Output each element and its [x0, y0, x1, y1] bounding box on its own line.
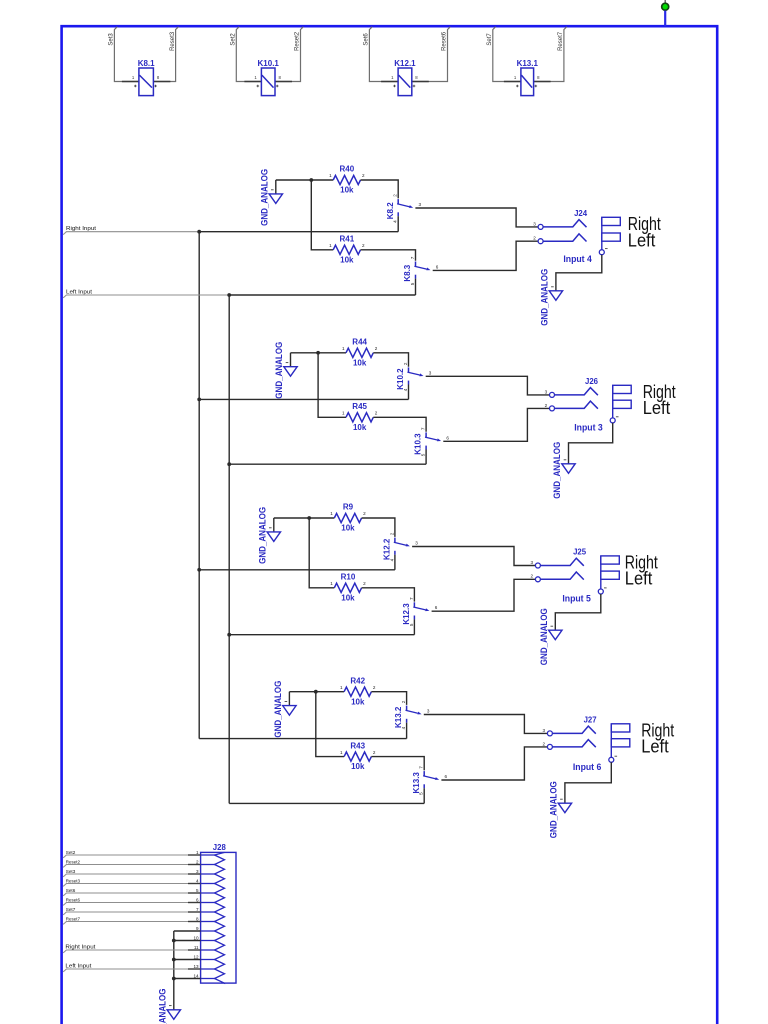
svg-text:Reset3: Reset3	[66, 878, 81, 883]
wire Set3 to K8.1 pin 1	[114, 27, 138, 82]
J27 sleeve pin 1	[609, 757, 614, 762]
wire K13.3 pin 6 to J27 pin 2	[441, 747, 547, 780]
svg-text:GND_ANALOG: GND_ANALOG	[539, 608, 550, 665]
svg-text:1: 1	[340, 685, 343, 690]
wire R43 pin 2 to K13.3 pin 7	[371, 757, 424, 771]
svg-text:1: 1	[329, 243, 332, 248]
svg-text:GND_ANALOG: GND_ANALOG	[157, 989, 168, 1024]
svg-text:1: 1	[340, 750, 343, 755]
svg-text:GND_ANALOG: GND_ANALOG	[552, 442, 563, 499]
junction right bus block 3	[197, 568, 201, 572]
wire Reset2 to J28 pin 2	[63, 865, 200, 868]
svg-text:1: 1	[330, 581, 333, 586]
svg-text:10k: 10k	[353, 423, 367, 432]
wire R42 pin 2 to K13.2 pin 2	[371, 692, 406, 705]
svg-text:J27: J27	[584, 716, 597, 725]
wire K8.3 pin 6 to J24 pin 2	[433, 241, 538, 270]
svg-text:2: 2	[401, 700, 406, 703]
J26 tip terminal (Right)	[613, 385, 632, 393]
wire J28 pin 10 stub	[174, 940, 201, 942]
wire J28 pin 9 to analog ground bus	[174, 930, 201, 932]
svg-text:2: 2	[373, 685, 376, 690]
svg-text:Set3: Set3	[109, 33, 115, 46]
ground GND_ANALOG left of R44	[284, 353, 297, 376]
svg-text:R43: R43	[350, 741, 365, 750]
ground GND_ANALOG left of R40	[269, 180, 282, 203]
wire ground to node block 4	[289, 691, 315, 693]
wire K12.2 pin 3 to J25 pin 3	[412, 547, 535, 566]
J28 pin 8 internal lead	[201, 921, 216, 923]
svg-text:1: 1	[342, 411, 345, 416]
wire R45 pin 2 to K10.3 pin 7	[373, 417, 426, 431]
wire node to R45 pin 1	[318, 353, 346, 418]
svg-text:2: 2	[373, 750, 376, 755]
K13.1 pin 8 polarity mark	[535, 85, 538, 88]
relay switch K13.3	[412, 766, 448, 795]
resistor R42	[340, 676, 376, 706]
svg-text:2: 2	[375, 411, 378, 416]
connector J28 contact springs	[215, 852, 225, 983]
J24 sleeve bus	[601, 217, 603, 249]
wire Set6 to K12.1 pin 1	[369, 27, 398, 82]
svg-text:Reset6: Reset6	[442, 31, 448, 51]
svg-text:K8.2: K8.2	[386, 202, 395, 219]
svg-text:J25: J25	[573, 548, 587, 557]
svg-text:13: 13	[193, 964, 199, 969]
svg-text:7: 7	[410, 256, 415, 259]
J28 pin 7 internal lead	[201, 911, 216, 913]
ground GND_ANALOG left of R9	[267, 518, 280, 541]
svg-text:Set3: Set3	[66, 869, 76, 874]
svg-text:Left: Left	[643, 398, 671, 418]
wire right bus to K10.2 pin 4	[199, 398, 408, 400]
wire R44 pin 2 to K10.2 pin 2	[373, 353, 408, 367]
svg-text:3: 3	[196, 869, 199, 874]
svg-text:R44: R44	[352, 338, 367, 347]
svg-text:Reset2: Reset2	[66, 859, 81, 864]
svg-text:6: 6	[446, 435, 449, 440]
svg-text:R9: R9	[343, 503, 354, 512]
wire ground to node block 1	[276, 179, 312, 181]
svg-text:2: 2	[545, 403, 548, 408]
wire right bus to K13.2 pin 4	[199, 738, 406, 740]
J24 tip terminal (Right)	[602, 217, 621, 225]
wire Left Input to J28 pin 13	[63, 969, 200, 972]
svg-text:Input 6: Input 6	[573, 762, 602, 772]
svg-text:K8.3: K8.3	[403, 264, 412, 281]
wire right bus to K12.2 pin 4	[199, 569, 395, 571]
svg-text:2: 2	[363, 581, 366, 586]
svg-text:11: 11	[194, 945, 199, 950]
svg-text:Reset7: Reset7	[66, 916, 81, 921]
wire Reset3 to J28 pin 4	[63, 884, 200, 887]
svg-text:GND_ANALOG: GND_ANALOG	[274, 342, 285, 399]
svg-text:Reset6: Reset6	[66, 897, 81, 902]
J25 ring contact pin 2	[531, 572, 584, 582]
wire Left Input to K8.3 pin 5	[229, 294, 415, 296]
J24 sleeve pin 1	[599, 250, 604, 255]
J27 tip terminal (Right)	[611, 724, 630, 732]
svg-text:GND_ANALOG: GND_ANALOG	[273, 681, 284, 738]
J28 pin 10 internal lead	[201, 940, 216, 942]
svg-text:14: 14	[193, 973, 199, 978]
svg-text:1: 1	[196, 850, 199, 855]
junction left bus block 2	[227, 462, 231, 466]
wire node to R40 pin 1	[311, 179, 333, 181]
wire J25 sleeve to ground	[555, 594, 601, 630]
svg-text:R42: R42	[350, 676, 365, 685]
relay coil K10.1	[258, 59, 280, 96]
J26 ring terminal (Left)	[613, 400, 632, 408]
svg-text:Set7: Set7	[487, 33, 493, 46]
svg-text:K12.3: K12.3	[402, 603, 411, 625]
svg-text:R45: R45	[352, 402, 367, 411]
svg-text:10k: 10k	[341, 524, 355, 533]
wire Set3 to J28 pin 3	[63, 874, 200, 877]
wire K8.2 pin 3 to J24 pin 3	[415, 208, 538, 227]
wire K12.3 pin 6 to J25 pin 2	[432, 579, 536, 611]
wire Set6 to J28 pin 5	[63, 893, 200, 896]
wire Left Input from border	[63, 295, 229, 298]
relay switch K8.3	[403, 256, 439, 285]
wire R40 pin 2 to K8.2 pin 2	[361, 180, 399, 198]
svg-text:10k: 10k	[351, 762, 365, 771]
svg-text:K13.1: K13.1	[517, 59, 539, 68]
svg-text:2: 2	[362, 243, 365, 248]
svg-text:4: 4	[401, 726, 406, 729]
svg-text:K10.1: K10.1	[258, 59, 280, 68]
K13.1 pin 1 polarity mark	[516, 85, 519, 88]
svg-text:6: 6	[435, 605, 438, 610]
J25 tip terminal (Right)	[601, 556, 620, 564]
wire node to R41 pin 1	[311, 180, 333, 250]
connector J28 body	[201, 852, 236, 983]
wire Right Input to K8.2 pin 4	[199, 231, 398, 233]
wire K12.3 pin 5 to left bus	[413, 619, 415, 634]
svg-text:10: 10	[193, 935, 199, 940]
junction node block 2	[316, 351, 320, 355]
J28 pin 5 internal lead	[201, 892, 216, 894]
svg-text:R41: R41	[340, 235, 355, 244]
wire K12.1 pin 8 to Reset6	[412, 27, 451, 82]
svg-text:R40: R40	[340, 165, 355, 174]
resistor R10	[330, 573, 366, 603]
svg-text:3: 3	[427, 709, 430, 714]
J26 sleeve pin 1	[610, 418, 615, 423]
relay switch K12.3	[402, 597, 438, 626]
svg-text:Set2: Set2	[66, 850, 76, 855]
svg-text:J28: J28	[213, 843, 227, 852]
K10.1 pin 1 polarity mark	[257, 85, 260, 88]
svg-text:R10: R10	[341, 573, 356, 582]
resistor R41	[329, 235, 365, 265]
svg-text:K12.2: K12.2	[383, 538, 392, 560]
svg-text:7: 7	[196, 907, 199, 912]
svg-text:3: 3	[533, 221, 536, 226]
svg-text:10k: 10k	[340, 255, 354, 264]
K12.1 pin 1 polarity mark	[393, 85, 396, 88]
wire R41 pin 2 to K8.3 pin 7	[361, 250, 416, 261]
svg-text:K10.2: K10.2	[396, 368, 405, 390]
svg-text:2: 2	[543, 741, 546, 746]
junction Right Input bus	[197, 230, 201, 234]
wire K8.3 pin 5 to left bus	[415, 279, 417, 295]
svg-text:2: 2	[362, 173, 365, 178]
junction node block 3	[307, 516, 311, 520]
svg-text:3: 3	[531, 560, 534, 565]
wire Right Input to J28 pin 11	[63, 950, 200, 953]
wire K13.3 pin 5 to left bus	[423, 788, 425, 803]
svg-text:10k: 10k	[340, 186, 354, 195]
ground GND_ANALOG left of R42	[283, 692, 296, 715]
wire ground to node block 3	[274, 517, 309, 519]
svg-text:7: 7	[421, 427, 426, 430]
J24 ring contact pin 2	[533, 234, 586, 244]
wire Right Input from border	[63, 232, 199, 235]
J25 sleeve pin 1	[598, 589, 603, 594]
K10.1 pin 8 polarity mark	[276, 85, 279, 88]
wire K13.2 pin 3 to J27 pin 3	[424, 715, 548, 734]
wire Set7 to K13.1 pin 1	[493, 27, 521, 82]
wire Reset7 to J28 pin 8	[63, 922, 200, 925]
svg-text:Reset2: Reset2	[295, 31, 301, 51]
wire node to R9 pin 1	[309, 517, 334, 519]
K8.1 pin 8 polarity mark	[154, 85, 157, 88]
J25 sleeve bus	[600, 556, 602, 589]
J26 tip contact pin 3	[545, 388, 598, 398]
wire R10 pin 2 to K12.3 pin 7	[362, 588, 415, 602]
svg-text:Input 4: Input 4	[563, 254, 592, 264]
wire K12.2 pin 4 to right bus	[394, 555, 396, 570]
J24 tip contact pin 3	[533, 220, 586, 230]
svg-text:K8.1: K8.1	[138, 59, 155, 68]
svg-text:4: 4	[196, 878, 199, 883]
resistor R43	[340, 741, 376, 771]
junction J28 pin 14	[172, 977, 176, 981]
svg-text:GND_ANALOG: GND_ANALOG	[257, 507, 268, 564]
J28 pin 3 internal lead	[201, 873, 216, 875]
wire K10.3 pin 5 to left bus	[425, 450, 427, 465]
svg-text:6: 6	[196, 897, 199, 902]
wire Reset6 to J28 pin 6	[63, 903, 200, 906]
wire Set2 to J28 pin 1	[63, 855, 200, 858]
wire left bus to K12.3 pin 5	[229, 634, 414, 636]
junction node block 4	[314, 690, 318, 694]
J28 pin 11 internal lead	[201, 949, 216, 951]
ground GND_ANALOG below J27	[558, 799, 571, 813]
Left Input vertical bus	[228, 295, 230, 803]
J28 pin 2 internal lead	[201, 864, 216, 866]
svg-text:Set6: Set6	[66, 888, 76, 893]
svg-text:5: 5	[196, 888, 199, 893]
svg-text:3: 3	[415, 541, 418, 546]
Right Input vertical bus	[198, 232, 200, 739]
svg-text:2: 2	[531, 574, 534, 579]
wire node to R42 pin 1	[316, 691, 344, 693]
svg-text:Reset7: Reset7	[558, 31, 564, 51]
svg-text:GND_ANALOG: GND_ANALOG	[539, 269, 550, 326]
svg-text:6: 6	[445, 774, 448, 779]
relay switch K13.2	[394, 700, 430, 729]
wire J27 sleeve to ground	[565, 762, 611, 803]
J28 pin 6 internal lead	[201, 902, 216, 904]
svg-text:Set2: Set2	[231, 33, 237, 46]
svg-text:5: 5	[421, 453, 426, 456]
svg-text:7: 7	[419, 766, 424, 769]
svg-text:2: 2	[533, 236, 536, 241]
wire J28 pin 12 stub	[174, 959, 201, 961]
relay switch K8.2	[386, 194, 422, 223]
relay coil K8.1	[138, 59, 155, 96]
resistor R40	[329, 165, 365, 195]
wire node to R10 pin 1	[309, 518, 334, 588]
svg-text:5: 5	[409, 623, 414, 626]
svg-text:1: 1	[342, 346, 345, 351]
svg-text:Left: Left	[641, 736, 669, 756]
wire K13.1 pin 8 to Reset7	[534, 27, 567, 82]
J28 pin 4 internal lead	[201, 883, 216, 885]
off-sheet port (green)	[662, 0, 669, 26]
wire K13.2 pin 4 to right bus	[406, 723, 408, 739]
K12.1 pin 8 polarity mark	[413, 85, 416, 88]
J27 ring terminal (Left)	[611, 739, 630, 747]
junction Left Input bus	[227, 293, 231, 297]
wire K10.2 pin 4 to right bus	[408, 385, 410, 400]
wire R9 pin 2 to K12.2 pin 2	[362, 518, 395, 537]
svg-text:Set7: Set7	[66, 907, 76, 912]
svg-text:K10.3: K10.3	[414, 433, 423, 455]
svg-text:GND_ANALOG: GND_ANALOG	[548, 781, 559, 838]
junction node block 1	[309, 178, 313, 182]
relay switch K10.3	[414, 427, 450, 456]
svg-text:1: 1	[329, 173, 332, 178]
resistor R45	[342, 402, 378, 432]
analog ground bus at J28	[173, 931, 175, 1001]
J25 tip contact pin 3	[531, 558, 584, 568]
J28 pin 1 internal lead	[201, 854, 216, 856]
svg-text:12: 12	[193, 954, 199, 959]
svg-text:J24: J24	[574, 209, 588, 218]
relay switch K10.2	[396, 362, 432, 391]
J27 sleeve bus	[610, 724, 612, 758]
svg-text:5: 5	[410, 282, 415, 285]
J27 tip contact pin 3	[543, 726, 596, 736]
svg-text:4: 4	[403, 388, 408, 391]
wire node to R43 pin 1	[316, 692, 344, 757]
svg-text:K13.3: K13.3	[412, 772, 421, 794]
ground GND_ANALOG below J26	[562, 460, 575, 474]
svg-text:J26: J26	[585, 377, 599, 386]
svg-text:Input 5: Input 5	[562, 594, 591, 604]
wire J24 sleeve to ground	[556, 255, 602, 291]
svg-text:6: 6	[436, 264, 439, 269]
wire K8.2 pin 4 to right bus	[397, 216, 399, 232]
svg-text:5: 5	[419, 792, 424, 795]
wire K10.1 pin 8 to Reset2	[275, 27, 303, 82]
wire K10.2 pin 3 to J26 pin 3	[426, 376, 550, 395]
svg-text:Set6: Set6	[364, 33, 370, 46]
wire left bus to K13.3 pin 5	[229, 802, 424, 804]
J26 ring contact pin 2	[545, 401, 598, 411]
svg-text:GND_ANALOG: GND_ANALOG	[259, 169, 270, 226]
svg-text:4: 4	[393, 220, 398, 223]
svg-text:3: 3	[419, 202, 422, 207]
wire ground to node block 2	[291, 352, 319, 354]
svg-text:2: 2	[389, 532, 394, 535]
ground GND_ANALOG below J24	[549, 287, 562, 301]
J24 ring terminal (Left)	[602, 233, 621, 241]
wire Set7 to J28 pin 7	[63, 912, 200, 915]
relay coil K13.1	[517, 59, 539, 96]
junction right bus block 2	[197, 398, 201, 402]
svg-text:2: 2	[375, 346, 378, 351]
svg-text:1: 1	[330, 511, 333, 516]
svg-text:10k: 10k	[351, 697, 365, 706]
svg-text:3: 3	[429, 370, 432, 375]
J28 pin 12 internal lead	[201, 959, 216, 961]
wire J26 sleeve to ground	[569, 423, 613, 464]
wire J28 pin 14 stub	[174, 978, 201, 980]
J26 sleeve bus	[612, 385, 614, 418]
svg-text:3: 3	[545, 389, 548, 394]
svg-text:3: 3	[543, 728, 546, 733]
svg-text:7: 7	[409, 597, 414, 600]
svg-text:Left: Left	[628, 231, 656, 251]
relay coil K12.1	[394, 59, 416, 96]
svg-text:Input 3: Input 3	[574, 422, 603, 432]
svg-text:2: 2	[393, 194, 398, 197]
ground GND_ANALOG below J28	[167, 1001, 180, 1019]
relay switch K12.2	[383, 532, 419, 561]
svg-text:Reset3: Reset3	[170, 31, 176, 51]
wire left bus to K10.3 pin 5	[229, 463, 426, 465]
svg-text:2: 2	[403, 362, 408, 365]
svg-text:8: 8	[196, 916, 199, 921]
ground GND_ANALOG below J25	[549, 626, 562, 640]
svg-text:10k: 10k	[341, 593, 355, 602]
junction J28 pin 12	[172, 958, 176, 962]
J25 ring terminal (Left)	[601, 571, 620, 579]
K8.1 pin 1 polarity mark	[134, 85, 137, 88]
junction left bus block 3	[227, 633, 231, 637]
resistor R44	[342, 338, 378, 368]
wire K8.1 pin 8 to Reset3	[153, 27, 178, 82]
svg-text:2: 2	[363, 511, 366, 516]
wire Set2 to K10.1 pin 1	[236, 27, 261, 82]
svg-text:2: 2	[196, 859, 199, 864]
svg-text:4: 4	[389, 558, 394, 561]
J28 pin 14 internal lead	[201, 978, 216, 980]
junction J28 pin 10	[172, 939, 176, 943]
J28 pin 9 internal lead	[201, 930, 216, 932]
wire node to R44 pin 1	[318, 352, 346, 354]
svg-text:Left: Left	[625, 569, 653, 589]
svg-text:K13.2: K13.2	[394, 706, 403, 728]
svg-text:10k: 10k	[353, 358, 367, 367]
svg-text:K12.1: K12.1	[394, 59, 416, 68]
J28 pin 13 internal lead	[201, 968, 216, 970]
J27 ring contact pin 2	[543, 740, 596, 750]
resistor R9	[330, 503, 366, 533]
svg-text:9: 9	[196, 926, 199, 931]
wire K10.3 pin 6 to J26 pin 2	[443, 408, 549, 441]
